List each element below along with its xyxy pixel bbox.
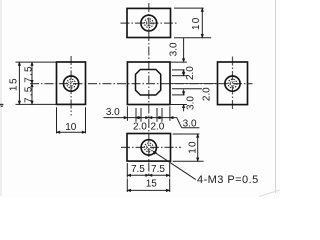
centerline vertical left view: [70, 56, 72, 116]
svg-text:15: 15: [9, 77, 20, 91]
centerline vertical main (top/front/bottom views): [148, 3, 150, 177]
bottom chain dimension line: [127, 117, 176, 119]
svg-text:10: 10: [191, 16, 202, 30]
right view tapped hole outer circle: [225, 76, 240, 91]
dimension 2.0 right chain: arrows: [182, 70, 184, 76]
top view tapped hole thread circle: [144, 19, 153, 28]
bottom view tapped hole thread circle: [144, 143, 153, 152]
bottom chain extension ticks: [127, 106, 169, 122]
leader line 4-M3 note: [153, 151, 196, 179]
right chain extension ticks: [170, 62, 202, 104]
svg-text:10: 10: [187, 140, 198, 154]
dimension 3.0 upper right chain: stem and arrow: [182, 38, 184, 62]
dimension 10 right of bottom view: extension lines: [173, 134, 204, 161]
bottom chain arrows: [136, 116, 173, 118]
svg-text:7.5: 7.5: [151, 164, 165, 175]
dimension 7.5/7.5 below bottom view: extension lines: [127, 163, 169, 178]
dimension 3.0 bottom left: leader with arrow: [104, 116, 128, 118]
dimension 15 below bottom view: extension lines: [127, 179, 169, 193]
svg-text:3.0: 3.0: [183, 119, 197, 130]
bottom view tapped hole outer circle: [141, 140, 156, 155]
svg-text:3.0: 3.0: [168, 42, 179, 56]
svg-text:2.0: 2.0: [150, 121, 164, 132]
right view outline: [218, 62, 248, 105]
dimension 10 right of top view: dimension line with arrows: [201, 8, 203, 38]
centerline horizontal main row: [30, 83, 253, 85]
left view tapped hole thread circle: [67, 79, 76, 88]
svg-text:2.0: 2.0: [185, 66, 196, 80]
svg-text:15: 15: [146, 178, 158, 189]
left view outline: [57, 62, 86, 104]
svg-text:2.0: 2.0: [133, 121, 147, 132]
left view tapped hole outer circle: [64, 76, 79, 91]
dimension 7.5/7.5 below bottom view: dimension line with arrows: [127, 174, 169, 176]
svg-text:7.5: 7.5: [23, 85, 34, 103]
svg-text:2.0: 2.0: [202, 87, 213, 101]
stray cropped mark left edge: [0, 104, 3, 107]
svg-text:7.5: 7.5: [23, 65, 34, 83]
faint page border left: [0, 0, 2, 196]
svg-text:10: 10: [65, 122, 77, 133]
smudge bottom right: [259, 190, 280, 197]
dimension 10 below left view: dimension line with arrows: [57, 131, 86, 133]
top view outline: [127, 8, 171, 37]
bottom view outline: [127, 134, 171, 162]
svg-text:3.0: 3.0: [185, 96, 196, 110]
dimension 15 left: extension lines: [16, 62, 57, 104]
front view square opening with chamfered corners: [136, 70, 161, 96]
right view tapped hole thread circle: [228, 79, 237, 88]
front view outline: [127, 62, 170, 105]
dimension 15 left: dimension line with arrows: [18, 62, 20, 104]
svg-text:4-M3 P=0.5: 4-M3 P=0.5: [197, 174, 259, 186]
centerline horizontal bottom view: [121, 146, 181, 148]
dimension 3.0 bottom right: leader and underline: [177, 118, 200, 128]
centerline horizontal top view: [121, 22, 178, 24]
dimension 3.0 lower right chain: arrows: [182, 90, 184, 112]
svg-text:3.0: 3.0: [106, 107, 120, 118]
dimension 10 right of top view: extension lines: [174, 8, 211, 38]
dimension 10 below left view: extension lines: [57, 107, 86, 133]
faint page border right: [275, 0, 277, 193]
svg-text:7.5: 7.5: [131, 164, 145, 175]
centerline vertical right view: [232, 57, 234, 112]
top view tapped hole outer circle: [141, 15, 157, 31]
dimension 10 right of bottom view: dimension line with arrows: [197, 134, 199, 161]
dimension 15 below bottom view: dimension line with arrows: [127, 189, 169, 191]
dimension 7.5/7.5 left: dimension line with arrows: [31, 62, 33, 104]
extension line along centerline to right view: [171, 83, 217, 85]
